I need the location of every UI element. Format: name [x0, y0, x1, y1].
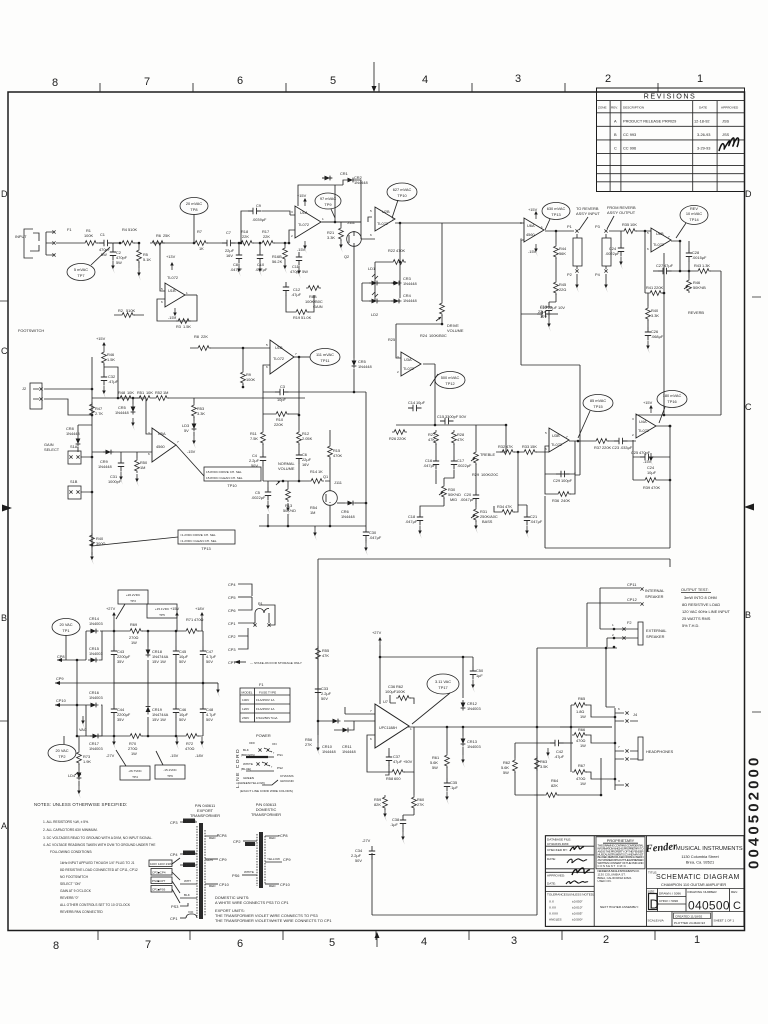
svg-text:10K: 10K [127, 390, 134, 395]
testpoint TP1 [52, 619, 80, 636]
svg-text:510K: 510K [126, 308, 135, 313]
resistor R58 feedback [367, 735, 390, 772]
svg-text:WHITE: WHITE [244, 870, 254, 874]
svg-text:U1B: U1B [275, 345, 283, 350]
svg-text:10pF: 10pF [277, 397, 286, 402]
svg-text:22K: 22K [201, 334, 208, 339]
svg-text:BLK/RED: BLK/RED [184, 819, 198, 823]
svg-text:+18V: +18V [195, 606, 205, 611]
svg-text:12-18-92: 12-18-92 [694, 119, 710, 124]
svg-text:7: 7 [177, 440, 179, 444]
svg-text:CP3: CP3 [170, 820, 178, 825]
svg-text:J111: J111 [334, 480, 342, 485]
svg-text:GAIN: GAIN [313, 304, 323, 309]
svg-text:1N4003: 1N4003 [89, 746, 103, 751]
svg-text:+27V: +27V [106, 606, 116, 611]
svg-text:RED: RED [269, 884, 276, 888]
center arrow bottom [376, 936, 378, 947]
svg-text:PROPRIETARY: PROPRIETARY [607, 838, 635, 843]
svg-text:2: 2 [612, 633, 614, 637]
svg-text:6: 6 [237, 938, 243, 950]
diode CR9 [103, 450, 114, 455]
svg-text:F1A/250V 1A: F1A/250V 1A [256, 707, 275, 711]
svg-text:1K: 1K [199, 246, 204, 251]
svg-text:+15V: +15V [96, 336, 106, 341]
diode CR10 [330, 719, 341, 724]
svg-text:VOLUME: VOLUME [278, 466, 295, 471]
svg-text:C1: C1 [100, 232, 105, 237]
svg-text:TP5: TP5 [159, 613, 165, 617]
boxed testpoint TP6 [155, 765, 185, 779]
svg-text:22μF 10V: 22μF 10V [548, 305, 565, 310]
svg-text:BLK: BLK [243, 748, 250, 752]
resistor R71 [184, 629, 199, 634]
svg-text:GAIN AT 9 O'CLOCK: GAIN AT 9 O'CLOCK [60, 889, 92, 893]
svg-text:.47μF: .47μF [554, 754, 565, 759]
feedback R39 [633, 426, 670, 480]
capacitor C55 [446, 767, 448, 778]
svg-text:CP5: CP5 [228, 595, 236, 600]
svg-text:3: 3 [520, 221, 522, 225]
svg-text:R51: R51 [137, 390, 144, 395]
svg-text:INTERNAL: INTERNAL [645, 588, 665, 593]
svg-text:4560: 4560 [156, 444, 165, 449]
svg-text:NO FOOTSWITCH: NO FOOTSWITCH [60, 875, 89, 879]
svg-text:B: B [745, 610, 751, 620]
svg-text:SCALE:N/A: SCALE:N/A [648, 919, 665, 923]
svg-text:5W: 5W [116, 260, 122, 265]
svg-text:040500: 040500 [688, 899, 730, 913]
svg-text:+13V: +13V [166, 254, 176, 259]
svg-text:15.8VDC DRIVE CH. SEL: 15.8VDC DRIVE CH. SEL [206, 470, 242, 474]
center arrow right [744, 504, 754, 511]
resistor R63 [535, 756, 540, 771]
svg-text:RED: RED [209, 836, 216, 840]
svg-text:GROUND: GROUND [280, 779, 295, 783]
svg-text:C3: C3 [280, 384, 285, 389]
svg-text:CP8: CP8 [57, 654, 65, 659]
svg-text:D: D [745, 189, 752, 199]
svg-text:R26: R26 [389, 436, 396, 441]
svg-text:R25: R25 [388, 337, 395, 342]
svg-text:10V: 10V [540, 314, 547, 319]
wire amp enclosure top [318, 559, 670, 735]
svg-text:— STAKE-ON FOR STORAGE ONLY: — STAKE-ON FOR STORAGE ONLY [250, 661, 302, 665]
svg-text:3.3K: 3.3K [327, 235, 335, 240]
svg-text:111 mVAC: 111 mVAC [316, 352, 334, 357]
boxed label drive/clean sel TP10 [204, 467, 261, 481]
svg-text:3.3K: 3.3K [197, 411, 205, 416]
svg-text:≈1.2VDC CLEAN CH. SEL: ≈1.2VDC CLEAN CH. SEL [180, 539, 217, 543]
svg-text:BLU/GRN: BLU/GRN [184, 851, 197, 855]
capacitor C17 [451, 456, 457, 470]
svg-text:TP9: TP9 [324, 202, 331, 207]
svg-text:(UNLESS NOTED): (UNLESS NOTED) [568, 893, 594, 897]
svg-text:97 mVAC: 97 mVAC [320, 196, 337, 201]
svg-text:LD2: LD2 [371, 312, 378, 317]
svg-text:R48: R48 [118, 390, 125, 395]
export transformer core [199, 823, 203, 919]
testpoint TP14 [680, 206, 708, 225]
svg-text:4560: 4560 [526, 232, 535, 237]
svg-text:2: 2 [605, 73, 611, 85]
svg-text:5: 5 [161, 287, 163, 291]
svg-text:.0015μF: .0015μF [692, 255, 707, 260]
svg-text:220K: 220K [274, 422, 283, 427]
svg-text:5 mVAC: 5 mVAC [74, 267, 88, 272]
svg-text:R14: R14 [310, 469, 318, 474]
svg-text:1M: 1M [140, 465, 145, 470]
svg-text:0040502000: 0040502000 [746, 755, 763, 869]
resistor R37 [594, 439, 609, 444]
capacitor C37 [388, 748, 390, 752]
op-amp U3B [549, 428, 569, 452]
svg-text:220K: 220K [397, 436, 406, 441]
capacitor C46 [175, 683, 177, 736]
svg-text:100V 120V 230V: 100V 120V 230V [150, 862, 173, 866]
svg-text:3-26-93: 3-26-93 [697, 132, 710, 137]
svg-text:F1: F1 [259, 682, 264, 687]
svg-text:50V: 50V [321, 696, 328, 701]
svg-text:1: 1 [322, 217, 324, 221]
svg-text:TREBLE: TREBLE [480, 452, 496, 457]
resistor R32 [505, 424, 508, 427]
wire U1B out to U2B [322, 217, 375, 239]
svg-text:TL072: TL072 [653, 242, 664, 247]
diode CR17 [90, 734, 101, 739]
svg-text:7: 7 [668, 235, 670, 239]
svg-text:CP9: CP9 [219, 857, 227, 862]
svg-text:6: 6 [266, 365, 268, 369]
dc rail positive [102, 630, 203, 632]
svg-text:U7: U7 [383, 699, 388, 704]
testpoint TP12 [435, 372, 465, 389]
wire speaker to phones [606, 648, 615, 707]
op-amp U1B [160, 243, 165, 291]
svg-text:CHASSIS: CHASSIS [280, 774, 294, 778]
wire reverb return long [636, 271, 721, 415]
svg-text:1130 Columbia Street: 1130 Columbia Street [681, 854, 719, 859]
svg-text:X.XX: X.XX [549, 906, 556, 910]
svg-text:CHKR: I 5096: CHKR: I 5096 [659, 899, 678, 903]
svg-text:47K: 47K [505, 504, 512, 509]
svg-text:+27V: +27V [372, 630, 382, 635]
svg-text:2: 2 [603, 934, 609, 946]
svg-text:25 WATTS RMS: 25 WATTS RMS [682, 616, 711, 621]
svg-text:1N4003: 1N4003 [467, 706, 481, 711]
svg-text:SPEAKER: SPEAKER [646, 634, 665, 639]
pointer wires to bus [92, 537, 178, 546]
op-amp U2B [375, 207, 395, 231]
svg-text:50V: 50V [206, 659, 213, 664]
svg-text:3.11 VAC: 3.11 VAC [435, 679, 451, 684]
svg-text:-27V: -27V [106, 753, 115, 758]
svg-text:1N4448: 1N4448 [342, 749, 356, 754]
capacitor C26 [647, 320, 649, 327]
approval signature scribble [719, 138, 739, 151]
svg-text:TP13: TP13 [201, 546, 210, 551]
svg-text:1N4448: 1N4448 [115, 410, 129, 415]
svg-text:±0.500°: ±0.500° [572, 918, 583, 922]
svg-text:1W: 1W [580, 781, 586, 786]
resistor R26 [392, 430, 407, 435]
svg-text:8Ω RESISTIVE LOAD: 8Ω RESISTIVE LOAD [682, 602, 720, 607]
svg-text:.047μF: .047μF [369, 535, 382, 540]
zener LD3 [193, 417, 195, 421]
svg-text:TRANSFORMER: TRANSFORMER [251, 812, 281, 817]
svg-text:1: 1 [697, 73, 703, 85]
svg-text:.0022μF: .0022μF [457, 463, 472, 468]
svg-text:.0039μF: .0039μF [252, 217, 267, 222]
svg-text:FOOTSWITCH: FOOTSWITCH [18, 328, 44, 333]
wire left vertical [76, 660, 78, 736]
svg-text:U3A: U3A [404, 357, 412, 362]
svg-text:1μF: 1μF [476, 673, 483, 678]
border frame [8, 92, 745, 931]
svg-text:1N4448: 1N4448 [403, 281, 417, 286]
svg-text:.047μF: .047μF [230, 267, 243, 272]
wire P3 to U6B [609, 230, 651, 232]
resistor R62 [513, 758, 518, 773]
svg-text:C: C [614, 146, 617, 151]
svg-text:CP4: CP4 [228, 582, 236, 587]
svg-text:A WHITE WIRE CONNECTS PS3 TO C: A WHITE WIRE CONNECTS PS3 TO CP1 [215, 900, 289, 905]
svg-text:3: 3 [632, 417, 634, 421]
zener CR18 [114, 682, 218, 684]
svg-text:TOLERANCES: TOLERANCES [547, 893, 568, 897]
svg-text:TP1: TP1 [62, 628, 69, 633]
svg-text:R37: R37 [594, 445, 601, 450]
svg-text:CP10: CP10 [56, 698, 67, 703]
boxed label lo sel TP13 [178, 530, 235, 544]
svg-text:10μF: 10μF [416, 400, 426, 405]
svg-text:7: 7 [566, 435, 568, 439]
svg-text:F.5A/250V 5mA: F.5A/250V 5mA [256, 716, 278, 720]
svg-text:2: 2 [291, 234, 293, 238]
svg-text:MID: MID [450, 497, 457, 502]
svg-text:47μF: 47μF [664, 263, 674, 268]
svg-text:C27: C27 [656, 263, 663, 268]
NOTES [34, 802, 156, 914]
svg-text:HEADPHONES: HEADPHONES [646, 749, 674, 754]
svg-text:A: A [614, 119, 617, 124]
svg-text:PRODUCT RELEASE PR#029: PRODUCT RELEASE PR#029 [623, 119, 676, 124]
zone ticks bottom [98, 931, 655, 940]
resistor R55 [316, 646, 321, 661]
TITLEBLOCK [545, 836, 744, 927]
svg-text:DATE:: DATE: [547, 857, 556, 861]
switch pole 2 [256, 762, 259, 765]
svg-text:RED: RED [269, 836, 276, 840]
svg-text:6: 6 [237, 75, 243, 87]
svg-text:5: 5 [329, 937, 335, 949]
node bus [91, 357, 93, 555]
svg-text:3: 3 [511, 935, 517, 947]
svg-text:TL072: TL072 [638, 428, 649, 433]
svg-text:PLOTTED 24-MAR-93: PLOTTED 24-MAR-93 [674, 921, 705, 925]
wire mix bus [299, 392, 366, 527]
svg-text:82K: 82K [374, 802, 381, 807]
resistor R5 [138, 242, 141, 245]
resistor R12 [298, 415, 300, 430]
capacitor C10 [259, 243, 261, 250]
diode CR4 [391, 299, 402, 304]
svg-text:1N4448: 1N4448 [403, 298, 417, 303]
wire bottom rail [263, 480, 330, 482]
svg-text:.47μF: .47μF [291, 292, 302, 297]
svg-text:U1B: U1B [168, 288, 176, 293]
capacitor C9 branch [241, 211, 290, 243]
svg-text:-27V: -27V [362, 838, 371, 843]
svg-text:1.5K: 1.5K [183, 324, 191, 329]
svg-text:R19: R19 [293, 315, 300, 320]
diode CR3 [391, 281, 402, 286]
svg-text:470K: 470K [651, 485, 660, 490]
pot MID R30 [436, 470, 454, 484]
zone ticks top [100, 83, 658, 92]
svg-text:F1A/250V 1A: F1A/250V 1A [256, 698, 275, 702]
capacitor C47 [202, 631, 204, 683]
svg-text:10μF: 10μF [647, 470, 657, 475]
svg-text:2: 2 [520, 237, 522, 241]
svg-text:+15V: +15V [528, 207, 538, 212]
svg-text:5W: 5W [432, 765, 438, 770]
svg-text:U6A: U6A [527, 223, 535, 228]
svg-text:R2: R2 [118, 308, 123, 313]
resistor R72 [184, 734, 199, 739]
svg-text:230V: 230V [242, 716, 250, 720]
svg-text:VOLUME: VOLUME [447, 328, 464, 333]
center arrow top [373, 62, 375, 86]
capacitor C8 [238, 243, 240, 250]
svg-text:U5A: U5A [158, 431, 166, 436]
svg-text:1W: 1W [580, 714, 586, 719]
svg-text:REV.: REV. [731, 890, 738, 894]
svg-text:C: C [745, 402, 752, 412]
svg-text:47K: 47K [457, 437, 464, 442]
svg-text:R29: R29 [472, 472, 479, 477]
svg-text:C15: C15 [437, 414, 444, 419]
capacitor C31 [120, 452, 122, 458]
svg-text:CP8: CP8 [280, 833, 288, 838]
svg-text:51.0K: 51.0K [301, 315, 312, 320]
svg-text:NOTES: UNLESS OTHERWISE SPECIF: NOTES: UNLESS OTHERWISE SPECIFIED: [34, 802, 127, 807]
svg-text:47μF +50V: 47μF +50V [393, 759, 413, 764]
svg-text:20 mVAC: 20 mVAC [186, 201, 203, 206]
svg-text:REVERB: REVERB [688, 310, 704, 315]
diode CR12 [461, 700, 466, 711]
svg-text:1N4448: 1N4448 [98, 464, 112, 469]
resistor R73 [78, 736, 80, 750]
svg-text:6: 6 [618, 707, 620, 711]
LED LD2 [369, 299, 380, 304]
svg-text:TP14: TP14 [689, 217, 699, 222]
svg-text:1: 1 [186, 291, 188, 295]
svg-text:1.9K: 1.9K [83, 759, 91, 764]
svg-text:D: D [1, 189, 8, 199]
svg-text:47K: 47K [322, 653, 329, 658]
svg-text:22K: 22K [263, 234, 270, 239]
svg-text:BLK: BLK [184, 893, 191, 897]
svg-text:YELLOW: YELLOW [267, 857, 280, 861]
op-amp U5A [152, 428, 176, 462]
wire normal input [190, 347, 270, 349]
svg-text:5: 5 [266, 343, 268, 347]
svg-text:P3: P3 [595, 224, 600, 229]
capacitor C44 [113, 683, 115, 736]
boxed testpoint TP4 [120, 766, 150, 780]
svg-text:1M: 1M [310, 510, 315, 515]
svg-text:100pF: 100pF [561, 478, 573, 483]
svg-text:35V: 35V [117, 659, 124, 664]
svg-text:TL072: TL072 [298, 222, 309, 227]
svg-text:CP6: CP6 [228, 608, 236, 613]
svg-text:+15V: +15V [170, 606, 180, 611]
resistor R70 [128, 734, 143, 739]
svg-text:+15V: +15V [643, 400, 653, 405]
svg-text:.1μF: .1μF [390, 822, 398, 827]
JFET Q1 [323, 491, 338, 506]
svg-text:CP1: CP1 [228, 621, 236, 626]
svg-text:47K: 47K [428, 437, 435, 442]
capacitor C23 [614, 438, 628, 444]
svg-text:R67: R67 [578, 763, 585, 768]
svg-text:TP2: TP2 [58, 754, 65, 759]
checked-by signature [570, 846, 584, 851]
resistor R40 [647, 293, 649, 306]
svg-text:.047μF: .047μF [423, 463, 436, 468]
svg-text:TL072: TL072 [377, 221, 388, 226]
capacitor C28 [671, 241, 689, 271]
svg-text:15.8VDC CLEAN CH. SEL: 15.8VDC CLEAN CH. SEL [206, 476, 243, 480]
svg-text:6: 6 [161, 300, 163, 304]
resistor R9 [242, 348, 244, 370]
svg-text:CP3■CP4: CP3■CP4 [152, 871, 166, 875]
svg-text:.1μF: .1μF [450, 785, 458, 790]
svg-text:CP2: CP2 [228, 634, 236, 639]
svg-text:DATABASE FILE:: DATABASE FILE: [547, 838, 571, 842]
resistor R61 [446, 727, 448, 753]
resistor R2 [120, 313, 135, 318]
capacitor C48 [202, 683, 204, 736]
resistor R8B [306, 286, 321, 291]
svg-text:RED: RED [209, 884, 216, 888]
op-amp U4A [636, 414, 656, 438]
svg-text:MUSICAL INSTRUMENTS: MUSICAL INSTRUMENTS [676, 846, 743, 852]
svg-text:DRAWING NUMBER: DRAWING NUMBER [688, 890, 718, 894]
svg-text:UPC1188H: UPC1188H [379, 726, 397, 730]
svg-text:REV.: REV. [611, 106, 618, 110]
op-amp U6B [651, 228, 671, 252]
svg-text:3: 3 [515, 73, 521, 85]
svg-text:1W: 1W [131, 640, 137, 645]
VERTNUM [746, 755, 763, 869]
diode CR11 [340, 728, 351, 733]
svg-text:CP8: CP8 [219, 833, 227, 838]
svg-text:2.05K: 2.05K [302, 436, 313, 441]
svg-text:BLACK: BLACK [246, 842, 256, 846]
domestic transformer core [259, 832, 263, 888]
svg-text:120V: 120V [242, 707, 250, 711]
svg-text:3mW INTO 8 OHM: 3mW INTO 8 OHM [684, 595, 717, 600]
svg-text:4: 4 [421, 936, 427, 948]
svg-text:510K: 510K [128, 227, 137, 232]
svg-text:82K: 82K [551, 783, 558, 788]
svg-text:7: 7 [144, 76, 150, 88]
svg-text:TP4: TP4 [132, 775, 138, 779]
capacitor C11 [296, 252, 302, 266]
svg-text:.0022μF: .0022μF [251, 495, 266, 500]
